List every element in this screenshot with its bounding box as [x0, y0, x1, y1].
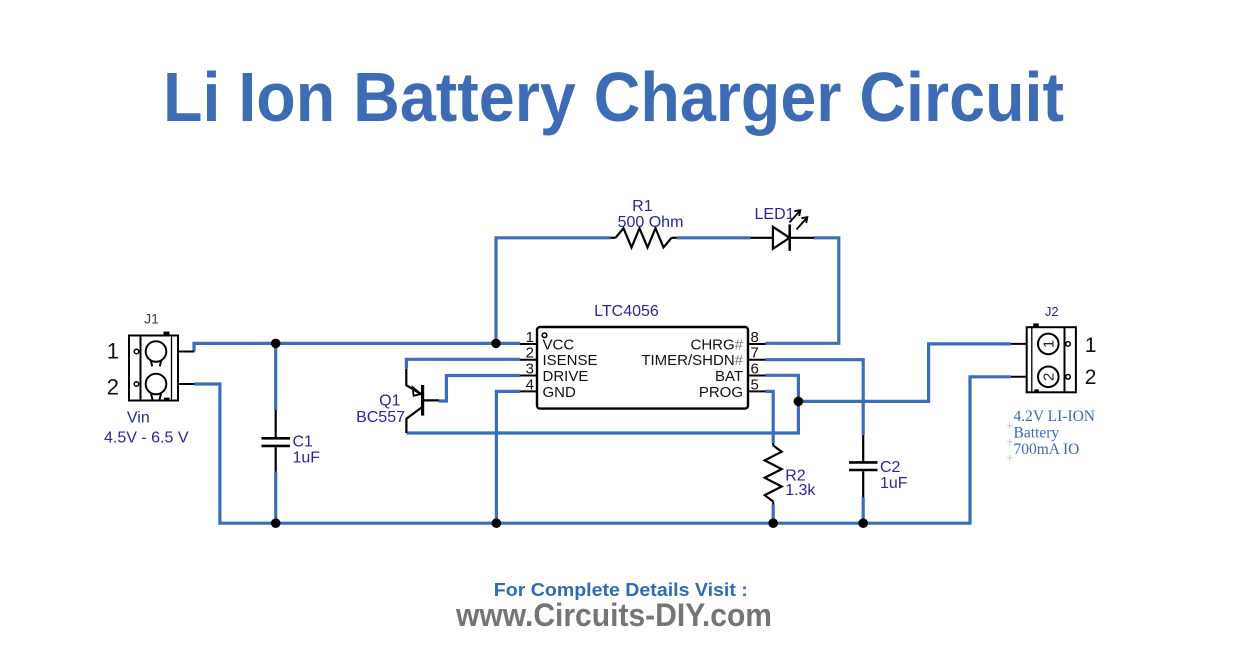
wire U1 pin5 PROG to R2	[766, 391, 774, 443]
svg-text:J1: J1	[144, 311, 159, 327]
svg-text:8: 8	[751, 329, 759, 346]
svg-text:CHRG#: CHRG#	[690, 337, 743, 354]
wire Q1 collector to BAT node	[406, 401, 798, 433]
svg-text:4.5V - 6.5 V: 4.5V - 6.5 V	[104, 429, 189, 446]
resistor R1	[611, 228, 677, 247]
wire VCC from J1 pin1 to U1 pin1	[194, 343, 520, 351]
grid marks	[1007, 423, 1013, 461]
wire C2 bottom to rail	[862, 498, 865, 524]
svg-text:VCC: VCC	[543, 337, 575, 354]
svg-text:C2: C2	[880, 459, 901, 476]
svg-text:2: 2	[107, 375, 119, 400]
svg-text:Battery: Battery	[1014, 425, 1060, 442]
svg-text:R1: R1	[632, 198, 653, 215]
svg-text:500 Ohm: 500 Ohm	[618, 214, 684, 231]
svg-text:TIMER/SHDN#: TIMER/SHDN#	[641, 352, 743, 369]
wire C1 top	[274, 343, 277, 410]
svg-text:1.3k: 1.3k	[785, 482, 816, 499]
svg-text:6: 6	[751, 361, 759, 378]
svg-text:4.2V LI-ION: 4.2V LI-ION	[1014, 408, 1096, 425]
junction BAT node	[794, 397, 804, 407]
svg-text:700mA IO: 700mA IO	[1014, 441, 1080, 458]
svg-text:1uF: 1uF	[293, 450, 321, 467]
svg-text:5: 5	[751, 376, 759, 393]
junction VCC / C1	[271, 339, 281, 349]
svg-text:PROG: PROG	[699, 384, 743, 401]
capacitor C2	[849, 435, 878, 498]
svg-text:1: 1	[526, 329, 534, 346]
svg-text:Vin: Vin	[127, 409, 150, 426]
svg-text:DRIVE: DRIVE	[543, 368, 589, 385]
junction VCC / R1 branch	[491, 339, 501, 349]
resistor R2	[765, 443, 782, 505]
wire LED1 cathode to U1 pin8	[766, 238, 839, 343]
IC U1 LTC4056	[520, 327, 766, 409]
wire R1 to LED1	[677, 236, 751, 239]
svg-text:1: 1	[107, 339, 119, 364]
connector J1	[107, 311, 195, 401]
svg-text:ISENSE: ISENSE	[543, 352, 598, 369]
junction rail / U1 GND	[492, 518, 502, 528]
wire C1 bottom to rail	[274, 472, 277, 523]
svg-text:1: 1	[1085, 334, 1097, 357]
svg-text:LTC4056: LTC4056	[594, 303, 659, 320]
svg-text:GND: GND	[543, 384, 577, 401]
wire U1 pin3 DRIVE to Q1 base	[439, 376, 521, 402]
svg-text:7: 7	[751, 345, 759, 362]
svg-text:4: 4	[526, 376, 534, 393]
wire U1 pin4 GND to rail	[496, 391, 520, 523]
wire U1 pin2 ISENSE to Q1 emitter	[406, 359, 520, 368]
wire R1 branch from VCC node up	[496, 238, 611, 344]
svg-text:Li Ion Battery Charger Circuit: Li Ion Battery Charger Circuit	[163, 58, 1064, 136]
svg-text:LED1: LED1	[755, 206, 795, 223]
svg-text:2: 2	[1041, 373, 1058, 381]
svg-text:BAT: BAT	[715, 368, 743, 385]
wire R2 bottom to rail	[772, 505, 775, 524]
transistor Q1	[406, 369, 438, 433]
svg-text:3: 3	[526, 361, 534, 378]
wire U1 pin7 TIMER to C2	[766, 360, 864, 435]
svg-text:2: 2	[526, 345, 534, 362]
svg-text:2: 2	[1085, 366, 1097, 389]
wire GND rail J1 pin2 to J2 pin2	[194, 377, 1011, 523]
wire BAT node to J2 pin1	[798, 344, 1010, 402]
svg-text:1uF: 1uF	[880, 475, 908, 492]
junction rail / C2	[858, 518, 868, 528]
LED LED1	[751, 210, 815, 251]
capacitor C1	[262, 410, 291, 472]
junction rail / C1	[271, 518, 281, 528]
svg-text:J2: J2	[1045, 304, 1059, 319]
junction rail / R2	[768, 518, 778, 528]
connector J2	[1011, 304, 1097, 392]
svg-text:Q1: Q1	[379, 393, 400, 410]
wire U1 pin6 BAT to node	[766, 375, 799, 401]
svg-text:C1: C1	[293, 434, 314, 451]
svg-text:www.Circuits-DIY.com: www.Circuits-DIY.com	[455, 597, 772, 633]
svg-text:1: 1	[1041, 340, 1058, 348]
svg-text:BC557: BC557	[356, 409, 405, 426]
